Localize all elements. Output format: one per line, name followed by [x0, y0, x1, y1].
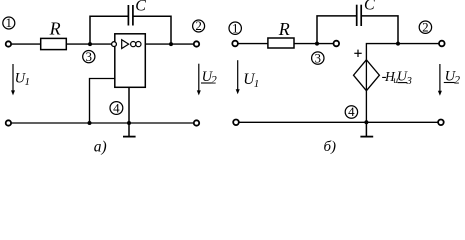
arrow U2	[197, 64, 201, 96]
wire op-amp ground pin	[128, 87, 130, 123]
junction	[127, 121, 131, 125]
junction bottom (b)	[364, 120, 368, 124]
node label 3	[83, 49, 95, 64]
terminal 1	[6, 41, 11, 46]
terminal 1 (b)	[232, 41, 238, 47]
svg-text:1: 1	[6, 15, 13, 30]
svg-text:4: 4	[348, 104, 355, 119]
node label 2	[193, 18, 205, 33]
wire output	[145, 43, 193, 45]
terminal bottom-right (b)	[438, 120, 444, 126]
svg-text:1: 1	[232, 20, 239, 35]
node label 2 (b)	[419, 19, 431, 34]
wire	[294, 43, 333, 45]
node label 1 (b)	[229, 20, 241, 35]
node label 4	[110, 100, 123, 115]
op-amp U1 box	[115, 34, 146, 88]
label U2 (b) underlined	[444, 69, 461, 87]
svg-text:1: 1	[254, 78, 259, 90]
node 3 junction (b)	[315, 42, 319, 46]
open terminal at node 3	[334, 41, 340, 47]
wire	[66, 43, 111, 45]
junction	[88, 121, 92, 125]
ground	[123, 123, 136, 137]
wire	[238, 43, 268, 45]
label U2 underlined	[201, 69, 217, 86]
node label 1	[3, 15, 15, 30]
wire feedback right (b)	[361, 16, 398, 44]
svg-text:1: 1	[25, 76, 31, 88]
junction output/feedback	[169, 42, 173, 46]
op-amp inverting input circle	[112, 42, 117, 47]
svg-text:2: 2	[422, 19, 429, 34]
svg-text:3: 3	[315, 50, 322, 65]
wire feedback left	[90, 16, 128, 44]
bottom wire (b)	[239, 121, 438, 123]
terminal 2	[194, 41, 199, 46]
wire non-inverting input	[90, 79, 115, 124]
svg-text:C: C	[135, 0, 146, 14]
op-amp infinity symbol	[131, 42, 136, 47]
bottom wire	[11, 122, 194, 124]
junction output (b)	[396, 42, 400, 46]
node 3 junction	[88, 42, 92, 46]
capacitor C1	[128, 0, 146, 26]
ground (b)	[360, 122, 373, 136]
terminal bottom-left	[6, 120, 11, 125]
arrow U2 (b)	[438, 64, 442, 96]
svg-text:3: 3	[406, 76, 412, 87]
plus sign	[354, 50, 361, 57]
svg-text:R: R	[278, 19, 290, 39]
arrow U1	[11, 64, 15, 95]
wire	[11, 43, 41, 45]
wire source to bottom	[365, 91, 367, 122]
svg-text:б): б)	[324, 139, 337, 155]
label U1 (b)	[243, 71, 259, 90]
resistor R2	[268, 19, 294, 48]
svg-text:2: 2	[195, 18, 202, 33]
arrow U1 (b)	[236, 60, 240, 94]
node label 4 (b)	[345, 104, 357, 119]
label -HuU3	[382, 69, 412, 87]
svg-text:C: C	[364, 0, 375, 13]
terminal 2 (b)	[439, 41, 445, 47]
terminal bottom-left (b)	[233, 120, 239, 126]
svg-text:2: 2	[454, 75, 460, 87]
svg-text:3: 3	[86, 49, 93, 64]
svg-text:4: 4	[113, 100, 120, 115]
label U1	[15, 71, 30, 88]
wire output (b)	[366, 44, 439, 60]
capacitor C2	[357, 0, 375, 26]
controlled source E1 diamond	[354, 60, 380, 91]
op-amp triangle	[122, 40, 129, 49]
wire feedback left (b)	[317, 16, 357, 44]
terminal bottom-right	[194, 120, 199, 125]
node label 3 (b)	[312, 50, 324, 65]
svg-text:2: 2	[211, 74, 217, 86]
resistor R1	[41, 19, 67, 50]
wire feedback right	[133, 16, 171, 44]
svg-text:а): а)	[94, 139, 107, 156]
svg-text:R: R	[49, 19, 61, 39]
